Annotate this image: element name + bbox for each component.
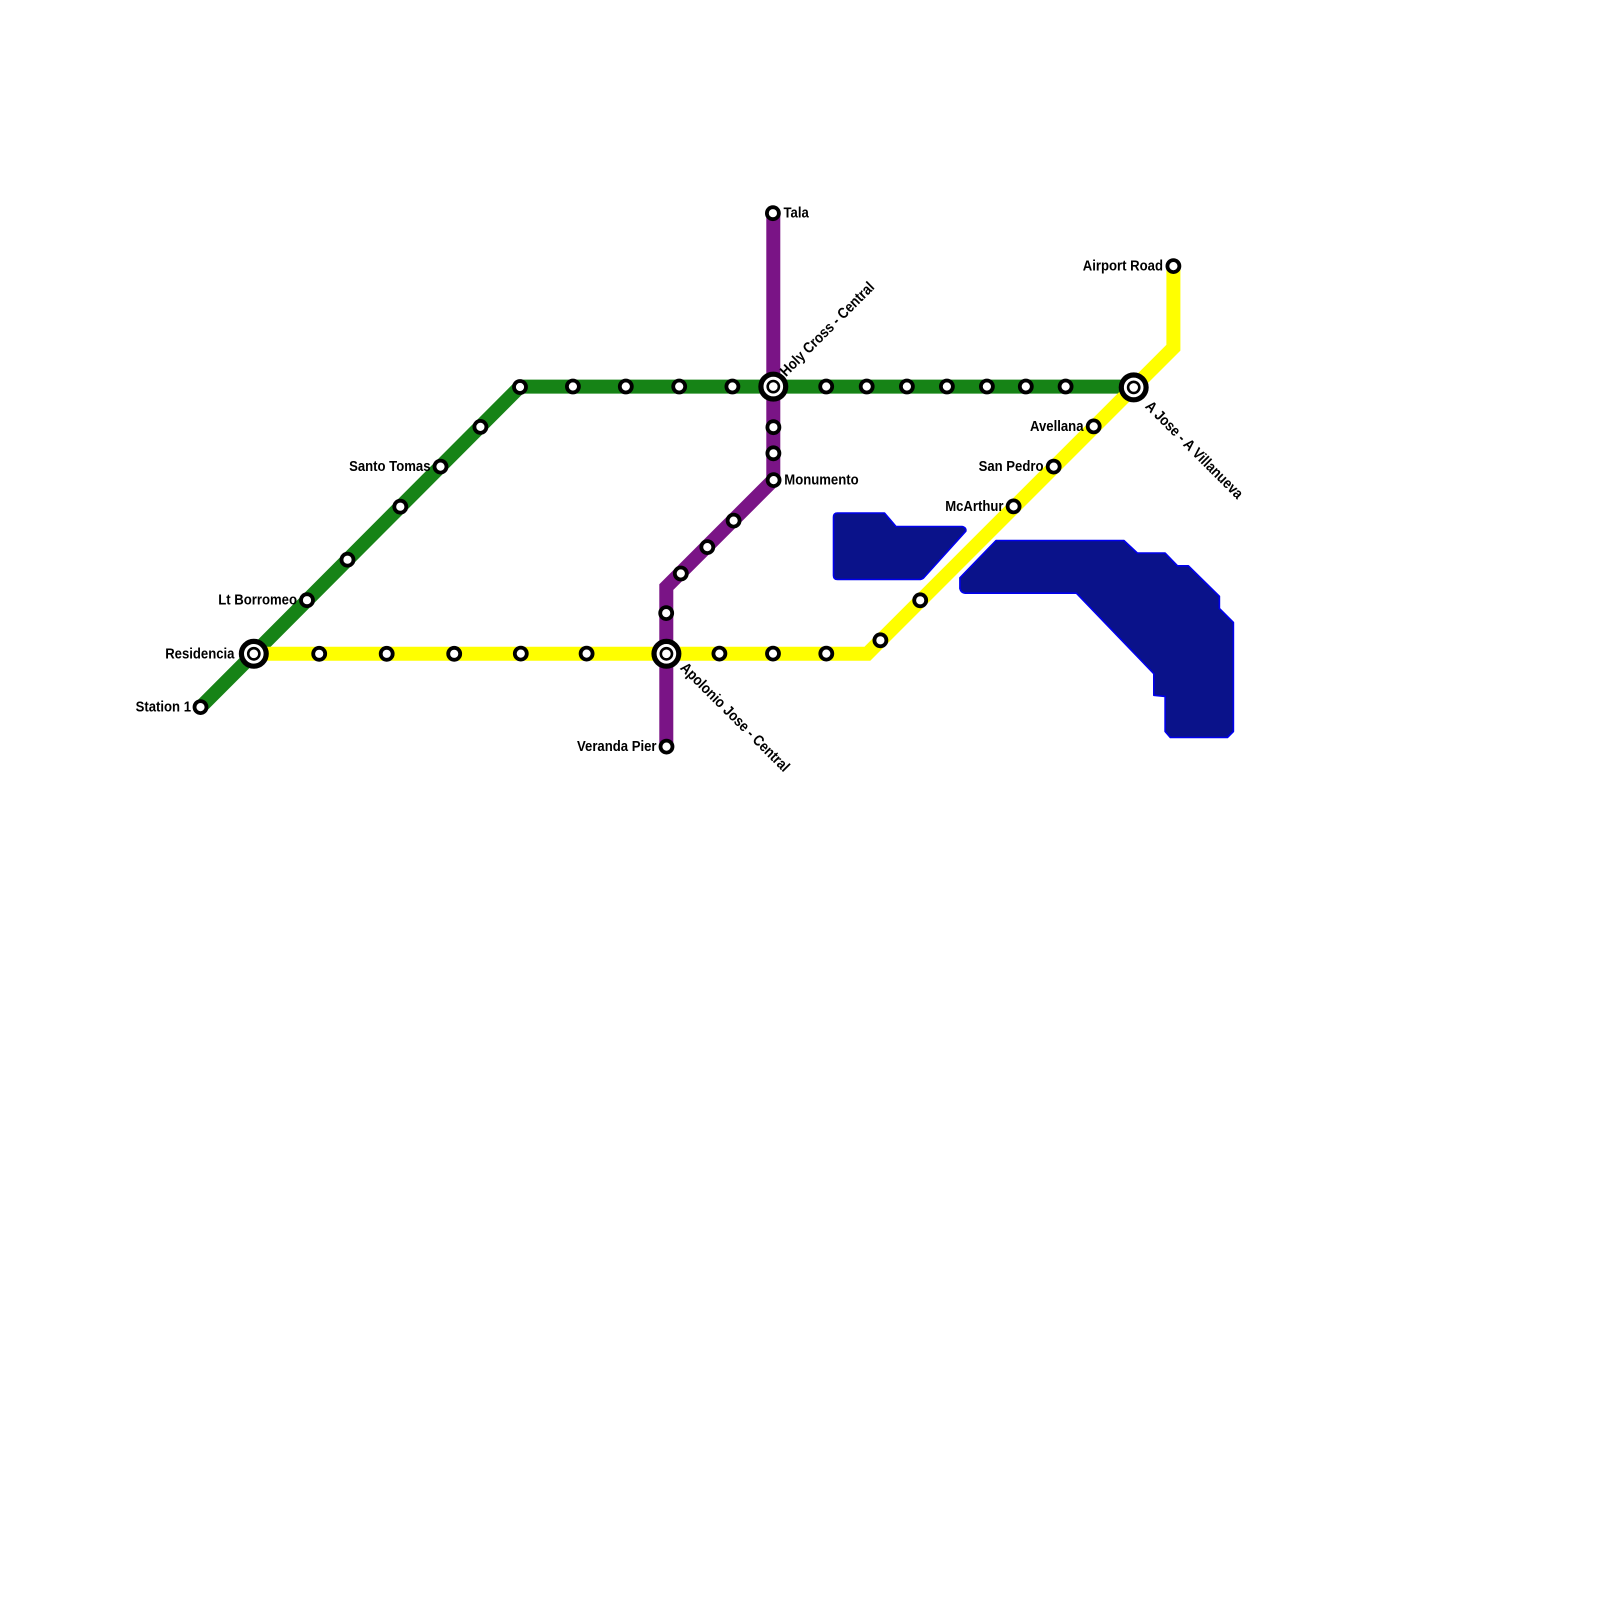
yellow line station 5: [914, 594, 926, 606]
green line station 6: [474, 421, 486, 433]
yellow line station 4: [1008, 500, 1020, 512]
yellow line station 2: [1088, 420, 1100, 432]
interchange Holy Cross hub: [761, 374, 786, 399]
water polygon east (large bay): [960, 541, 1234, 738]
yellow line station 11: [515, 648, 527, 660]
purple line station 4: [768, 474, 780, 486]
yellow line station 14: [313, 648, 325, 660]
purple line station 9: [661, 741, 673, 753]
green line station 17: [1020, 381, 1032, 393]
green line station 10: [673, 381, 685, 393]
interchange Residencia hub: [241, 641, 266, 666]
yellow line station 6: [874, 634, 886, 646]
green line station 13: [861, 381, 873, 393]
green line station 7: [514, 381, 526, 393]
yellow line station 10: [581, 648, 593, 660]
yellow line station 8: [767, 648, 779, 660]
yellow line station 12: [448, 648, 460, 660]
svg-text:Veranda Pier: Veranda Pier: [577, 738, 657, 755]
interchange A Jose hub: [1121, 375, 1146, 400]
green line station 15: [941, 381, 953, 393]
purple line station 1: [767, 207, 779, 219]
purple line station 7: [675, 568, 687, 580]
interchange Apolonio Jose hub: [654, 641, 679, 666]
svg-text:Apolonio Jose - Central: Apolonio Jose - Central: [677, 659, 793, 775]
svg-text:Residencia: Residencia: [165, 645, 235, 662]
svg-text:Monumento: Monumento: [784, 472, 858, 489]
svg-text:McArthur: McArthur: [945, 498, 1003, 515]
svg-text:A Jose - A Villanueva: A Jose - A Villanueva: [1142, 398, 1247, 503]
purple line station 5: [728, 515, 740, 527]
green line station 9: [620, 381, 632, 393]
svg-text:Tala: Tala: [784, 205, 810, 222]
green line station 16: [981, 381, 993, 393]
yellow line station 13: [381, 648, 393, 660]
green line station 5: [435, 461, 447, 473]
green line station 14: [901, 381, 913, 393]
green line station 3: [342, 554, 354, 566]
purple line (Tala - Veranda Pier): [666, 213, 773, 746]
green line station 4: [394, 501, 406, 513]
svg-text:San Pedro: San Pedro: [979, 458, 1044, 475]
svg-text:Avellana: Avellana: [1030, 418, 1084, 435]
svg-text:Santo Tomas: Santo Tomas: [349, 458, 430, 475]
svg-text:Holy Cross - Central: Holy Cross - Central: [777, 279, 878, 380]
purple line station 3: [767, 447, 779, 459]
svg-text:Airport Road: Airport Road: [1083, 257, 1163, 274]
svg-text:Station 1: Station 1: [136, 699, 191, 716]
green line station 12: [820, 381, 832, 393]
green line station 2: [301, 594, 313, 606]
purple line station 8: [660, 607, 672, 619]
water polygon west (small lake): [834, 513, 966, 580]
green line (Station 1 - A Jose): [201, 387, 1134, 708]
yellow line station 9: [713, 648, 725, 660]
svg-text:Lt Borromeo: Lt Borromeo: [218, 592, 297, 609]
purple line station 2: [767, 421, 779, 433]
green line station 11: [726, 381, 738, 393]
green line station 18: [1060, 381, 1072, 393]
yellow line (Airport Road - Residencia): [254, 266, 1174, 654]
green line station 8: [567, 381, 579, 393]
yellow line station 7: [820, 648, 832, 660]
green line station 1: [195, 701, 207, 713]
yellow line station 3: [1048, 461, 1060, 473]
yellow line station 1: [1167, 260, 1179, 272]
purple line station 6: [701, 541, 713, 553]
